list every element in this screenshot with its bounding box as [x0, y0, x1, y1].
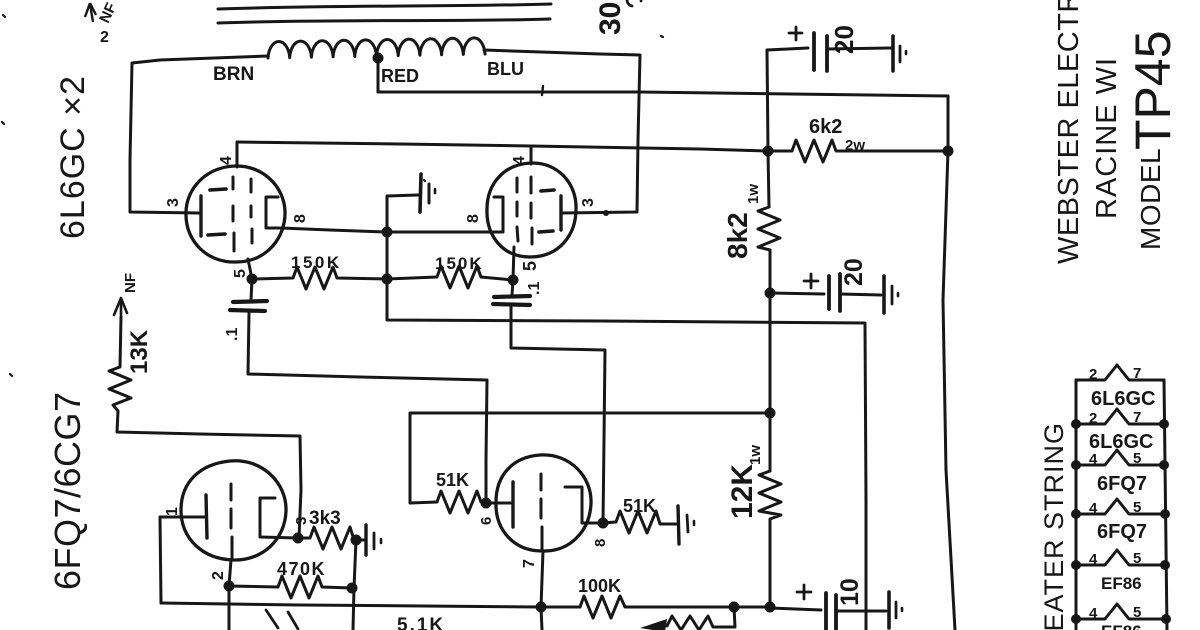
svg-text:3: 3	[293, 517, 310, 525]
svg-text:WEBSTER ELECTRIC: WEBSTER ELECTRIC	[1053, 0, 1085, 264]
svg-text:2: 2	[100, 29, 109, 46]
resistor 150K right	[387, 266, 513, 288]
wire bus to 12K node	[734, 606, 770, 609]
svg-text:BLU: BLU	[487, 59, 524, 79]
tick on RED line	[542, 86, 543, 95]
resistor 51K upper	[437, 491, 486, 513]
wire BLU lead down to pin 3 of right 6L6GC	[484, 50, 640, 213]
ground symbol at 3k3	[364, 525, 367, 555]
resistor 150K left	[252, 267, 387, 289]
svg-text:NF: NF	[122, 273, 139, 293]
svg-text:1w: 1w	[747, 445, 764, 465]
svg-text:10: 10	[836, 578, 864, 606]
ground symbol center	[420, 174, 421, 212]
tube V2 grid dashed column 1	[517, 178, 518, 241]
node grid lower right tube	[481, 498, 492, 509]
tube V1 beam plate dash lower	[208, 234, 225, 235]
partial glyph top edge	[627, 0, 641, 6]
svg-text:.1: .1	[224, 328, 241, 341]
svg-text:6L6GC: 6L6GC	[1091, 388, 1155, 410]
svg-text:6FQ7: 6FQ7	[1097, 473, 1147, 495]
wire grid line lower right triode	[410, 412, 770, 415]
node pin5 right	[508, 275, 519, 286]
resistor 3k3	[298, 527, 364, 549]
node grid return junction	[765, 408, 776, 419]
node screen cap junction	[765, 288, 776, 299]
tube V3 cathode bracket and plate wire	[260, 498, 298, 538]
svg-text:HEATER STRING: HEATER STRING	[1039, 422, 1069, 630]
node pin8 bus junction	[382, 227, 393, 238]
svg-text:30: 30	[594, 2, 627, 35]
wire 3k3 to 470K link	[353, 540, 356, 630]
capacitor 10uF	[770, 608, 821, 610]
svg-text:RED: RED	[381, 66, 419, 86]
svg-text:20: 20	[829, 25, 859, 54]
wire pin 4 stem left tube	[236, 142, 239, 167]
svg-text:4: 4	[1089, 605, 1098, 622]
svg-text:6k2: 6k2	[809, 116, 842, 138]
svg-text:.1: .1	[526, 282, 543, 295]
svg-text:51K: 51K	[436, 470, 469, 490]
wire pin 2 stem V3	[229, 560, 231, 630]
wire BRN lead to pin 3 of left 6L6GC	[130, 56, 268, 213]
wire pin 7 stem V4	[541, 551, 543, 630]
svg-text:4: 4	[511, 156, 528, 165]
wire top frame line 2	[218, 19, 550, 23]
capacitor .1 right plates	[511, 280, 605, 523]
tube V3 grid bar	[206, 495, 207, 538]
node pin3 right joint	[603, 210, 609, 216]
tube V2 grid dashed column 2	[531, 177, 532, 244]
wire pin 5 stem right	[513, 247, 514, 280]
resistor 100K	[580, 596, 734, 618]
svg-text:150K: 150K	[291, 253, 342, 272]
tube V1 grid bar pin3	[199, 196, 202, 236]
wire pin 5 stem left	[248, 259, 252, 279]
svg-text:BRN: BRN	[213, 64, 254, 85]
svg-text:4: 4	[1089, 451, 1098, 468]
resistor 470K	[229, 576, 352, 598]
svg-text:TP45: TP45	[1125, 30, 1181, 150]
wire cathode drop from pin8 node	[387, 232, 866, 630]
tube V2 plate bracket	[494, 197, 503, 232]
tube V4 center dashed column	[541, 474, 542, 549]
svg-text:470K: 470K	[277, 559, 326, 579]
node cathode junction V4	[598, 518, 609, 529]
svg-text:2w: 2w	[845, 137, 865, 154]
wire pin 8 bus between output tubes	[281, 228, 494, 232]
node 150K junction	[382, 274, 393, 285]
svg-text:8: 8	[292, 214, 309, 223]
wire pin 4 stem right tube	[530, 147, 533, 164]
tube V3 6FQ7 left envelope	[181, 461, 286, 560]
node plate junction V3	[293, 533, 304, 544]
node 470K right	[347, 583, 358, 594]
wire RED line to right rail	[378, 92, 948, 151]
heater rail nodes	[1071, 419, 1171, 624]
plus sign cap 20 top	[789, 27, 802, 40]
svg-text:2: 2	[1089, 410, 1097, 427]
wire RED center-tap stem	[377, 58, 380, 92]
svg-text:2: 2	[1089, 366, 1097, 383]
svg-text:20: 20	[840, 258, 868, 286]
svg-text:12K: 12K	[726, 464, 759, 519]
plus sign cap 10	[797, 585, 811, 599]
wire bottom bus	[161, 603, 580, 607]
heater rung 6	[1076, 604, 1166, 619]
tube V1 beam plate dash upper	[210, 189, 226, 190]
svg-text:EF86: EF86	[1101, 622, 1142, 630]
node 3k3 right	[351, 535, 362, 546]
plus sign cap 20 screen	[804, 274, 818, 288]
wire top frame line 1	[218, 4, 551, 9]
svg-text:13K: 13K	[126, 329, 153, 374]
node 12K bottom	[765, 602, 776, 613]
node 6k2 left	[763, 146, 774, 157]
svg-text:4: 4	[1089, 500, 1098, 517]
ground symbol at 51K	[678, 506, 679, 544]
resistor 6k2	[768, 140, 944, 162]
wire ground stub from pin8 bus	[387, 195, 418, 232]
svg-text:EF86: EF86	[1101, 574, 1142, 593]
tube V4 grid bar	[511, 482, 514, 527]
heater rung 3	[1076, 450, 1164, 465]
tube V1 plate bracket	[266, 197, 281, 228]
tube V2 beam plate dash lower	[539, 231, 553, 232]
svg-text:3: 3	[165, 198, 182, 207]
speck marks	[2, 15, 663, 376]
tube V1 grid dashed column 2	[251, 179, 252, 243]
wire B+ screen line	[237, 142, 768, 151]
ground symbol cap 20 screen	[882, 276, 886, 313]
potentiometer arm partial	[667, 607, 735, 630]
wire pin 1 lead and left drop	[160, 517, 206, 603]
svg-text:6: 6	[478, 517, 495, 525]
svg-text:5: 5	[520, 261, 540, 271]
svg-text:4: 4	[1089, 551, 1098, 568]
NF feedback arrow	[120, 302, 123, 317]
heater rung 1	[1076, 365, 1164, 380]
svg-text:6FQ7: 6FQ7	[1097, 521, 1147, 543]
wire B+ right rail	[767, 50, 770, 607]
resistor 8k2 vertical	[758, 207, 780, 250]
svg-text:8k2: 8k2	[722, 212, 753, 259]
svg-text:6FQ7/6CG7: 6FQ7/6CG7	[47, 391, 88, 590]
svg-text:6L6GC: 6L6GC	[1089, 431, 1153, 453]
tube V3 center dashed column	[231, 484, 232, 558]
resistor 12K vertical	[759, 471, 781, 519]
resistor 13K	[109, 317, 301, 538]
heater string right rail	[1164, 380, 1167, 630]
svg-text:2: 2	[210, 571, 227, 580]
svg-text:1: 1	[164, 507, 181, 516]
heater string left rail	[1075, 380, 1078, 630]
node pin7	[536, 602, 547, 613]
ground symbol cap 20 top	[891, 36, 895, 71]
svg-text:6L6GC ×2: 6L6GC ×2	[54, 75, 92, 239]
svg-text:5: 5	[232, 269, 249, 278]
label NF top corner	[85, 3, 96, 22]
transformer T1 primary coil	[268, 38, 485, 58]
potentiometer arrow head	[640, 619, 667, 630]
wire grid entry lower right tube	[486, 502, 513, 505]
node pin2	[224, 581, 235, 592]
capacitor 20uF top	[767, 48, 808, 50]
svg-text:8: 8	[465, 214, 482, 223]
svg-text:5: 5	[1133, 550, 1141, 567]
tube V4 cathode bracket	[565, 487, 603, 523]
tube V4 6FQ7 right envelope	[496, 455, 591, 551]
tube V2 beam plate dash upper	[541, 190, 554, 191]
tube V1 6L6GC left envelope	[186, 166, 285, 262]
node 100K right	[729, 602, 740, 613]
node 6k2 right	[943, 146, 954, 157]
tube V2 6L6GC right envelope	[487, 163, 576, 257]
svg-text:3: 3	[580, 198, 597, 207]
resistor 5.1K partial	[266, 610, 298, 629]
svg-text:RACINE WI: RACINE WI	[1091, 57, 1123, 219]
svg-text:1w: 1w	[745, 184, 762, 204]
heater rung 2	[1076, 409, 1164, 424]
node center tap	[373, 53, 384, 64]
svg-text:7: 7	[521, 559, 538, 568]
heater rung 5	[1076, 550, 1165, 565]
tube V2 grid bar pin3	[559, 196, 562, 230]
capacitor 20uF screen	[770, 293, 824, 294]
svg-text:4: 4	[218, 156, 235, 165]
capacitor .1 left plates	[248, 279, 487, 503]
svg-text:5: 5	[1133, 499, 1141, 516]
resistor 51K lower	[603, 511, 676, 533]
wire long right vertical from RED	[943, 151, 955, 630]
svg-text:100K: 100K	[578, 576, 621, 596]
svg-text:150K: 150K	[435, 254, 484, 273]
wire 51K feed left branch	[410, 413, 437, 503]
heater rung 4	[1076, 499, 1164, 514]
svg-text:7: 7	[1133, 409, 1141, 426]
svg-text:7: 7	[1133, 365, 1141, 382]
svg-text:5.1K: 5.1K	[397, 615, 445, 630]
tube V1 grid dashed column 1	[233, 177, 234, 251]
svg-text:5: 5	[1133, 604, 1141, 621]
svg-text:8: 8	[592, 539, 609, 547]
node pin5 left	[247, 274, 258, 285]
svg-text:3k3: 3k3	[309, 508, 341, 529]
svg-text:MODEL: MODEL	[1135, 148, 1166, 250]
ground symbol cap 10	[887, 592, 891, 628]
svg-text:51K: 51K	[623, 496, 656, 516]
